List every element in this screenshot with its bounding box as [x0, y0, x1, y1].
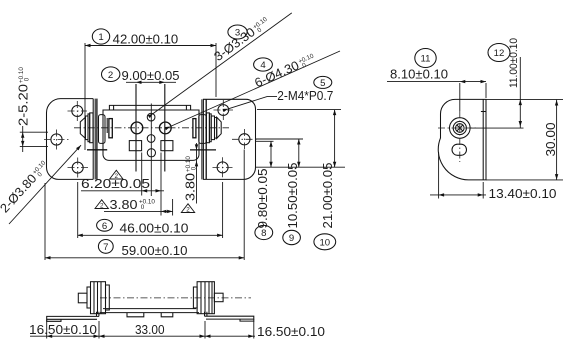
- body top flange: [109, 105, 190, 110]
- dim 3.80 arrows: [161, 210, 173, 213]
- body inner fold line left: [106, 118, 108, 133]
- center bar tab right: [161, 313, 173, 317]
- right bracket hole bottom: [217, 162, 228, 173]
- leader 3 text dia3.30: [212, 14, 273, 63]
- right spool pin stub: [214, 293, 223, 302]
- hinge axis centerline: [74, 127, 229, 129]
- dim 59.00 arrows: [45, 256, 244, 259]
- svg-text:12: 12: [494, 48, 505, 59]
- svg-text:6: 6: [102, 221, 107, 232]
- dim 46.00 line: [77, 182, 222, 238]
- body small hole bottom: [147, 149, 155, 157]
- dim 13.40 line and exts: [430, 152, 486, 199]
- dim 3.80 horizontal line: [104, 199, 173, 216]
- body center vertical line: [150, 104, 152, 197]
- dim 11.00 vline: [519, 57, 521, 128]
- dim 8.10 line and exts: [387, 82, 486, 111]
- balloon 2: [102, 67, 120, 82]
- balloon 9: [283, 230, 301, 244]
- dim 30.00 vline: [556, 100, 558, 180]
- bottom dim arrows: [47, 335, 254, 338]
- SIDE-VIEW: [387, 38, 563, 201]
- dim 10.50 arrows: [297, 139, 300, 167]
- dim 30.00 arrows: [555, 100, 558, 180]
- left wing foot: [47, 319, 61, 321]
- dim 9.80 arrows: [269, 141, 272, 167]
- dim 21.00 text vertical: [321, 163, 335, 229]
- left bend: [97, 312, 99, 317]
- right spool drum: [197, 282, 214, 314]
- right bracket hole bottom centerlines: [213, 157, 233, 177]
- triangle 2 before 3.80: [95, 200, 108, 209]
- side top edge ext: [486, 98, 563, 100]
- right bracket plate outline: [203, 99, 255, 179]
- svg-text:2: 2: [186, 207, 190, 214]
- left bracket plate right edge: [92, 99, 94, 180]
- body inner bar left: [109, 119, 112, 138]
- right wing plate: [205, 316, 254, 319]
- center bar top: [103, 308, 196, 310]
- leader 3.80 arrow: [76, 144, 82, 150]
- side view hole middle circle: [453, 121, 466, 134]
- dim 11.00 arrows: [519, 100, 522, 127]
- leader 4 arrow: [165, 125, 171, 130]
- MAIN-VIEW: [44, 99, 257, 196]
- dim 2-5.20 text vertical: [17, 67, 31, 126]
- dim 3.80 vertical arrows: [195, 144, 198, 166]
- triangle 2 below vertical 3.80: [181, 204, 194, 213]
- dim 9.00 arrows: [136, 81, 165, 84]
- dim 42.00 arrows: [85, 44, 216, 47]
- dim 3.80 vertical right line: [196, 143, 198, 204]
- body tab right: [161, 141, 173, 151]
- BOTTOM-VIEW: [29, 282, 325, 339]
- svg-text:9: 9: [289, 233, 294, 244]
- left bracket hole bottom centerlines: [68, 158, 89, 178]
- body knuckle roll right: [199, 115, 207, 144]
- svg-text:5: 5: [320, 78, 325, 89]
- central body outline: [103, 110, 199, 160]
- svg-text:9.80±0.05: 9.80±0.05: [256, 169, 270, 229]
- svg-text:2: 2: [100, 203, 104, 210]
- side view hole centerlines: [438, 111, 476, 162]
- side view screw recess: [456, 124, 465, 133]
- svg-text:3.80: 3.80: [110, 198, 138, 212]
- body big hole left: [131, 122, 143, 134]
- right bracket hole top M4: [218, 105, 229, 116]
- right spool washer 1: [193, 287, 197, 308]
- right bend: [205, 312, 207, 317]
- svg-text:3: 3: [235, 28, 240, 39]
- svg-text:59.00±0.10: 59.00±0.10: [122, 244, 188, 258]
- right bracket hole top centerlines: [214, 100, 234, 120]
- left spool pin stub: [78, 293, 87, 303]
- leader 3 arrow: [148, 112, 154, 118]
- svg-text:21.00±0.05: 21.00±0.05: [321, 163, 335, 229]
- pin washer left 3: [90, 113, 93, 143]
- pin washer right 3: [211, 116, 214, 140]
- svg-text:46.00±0.10: 46.00±0.10: [120, 221, 189, 235]
- left spool washer 2: [106, 285, 110, 310]
- dim 8.10 arrows: [460, 80, 486, 83]
- balloon 10: [314, 234, 336, 250]
- balloon 4: [254, 58, 273, 71]
- side view washer outer circle: [450, 118, 471, 139]
- svg-text:30.00: 30.00: [544, 123, 558, 157]
- pin washer left 2: [88, 114, 90, 142]
- svg-text:7: 7: [103, 242, 108, 253]
- balloon 5: [314, 76, 332, 88]
- right ext line mid-hole: [255, 138, 303, 140]
- leader 2-M4 line: [228, 97, 277, 109]
- left bracket leaf edge lines: [94, 99, 96, 180]
- leader 2-dia3.80 line: [9, 145, 81, 224]
- dim 46.00 arrows: [77, 234, 222, 237]
- dim 13.40 arrows: [439, 193, 484, 196]
- body ledge right: [190, 149, 216, 151]
- svg-text:8.10±0.10: 8.10±0.10: [390, 68, 448, 82]
- svg-text:0: 0: [23, 77, 30, 83]
- triangle 2 above 6.20: [110, 170, 123, 179]
- side view plate tick: [481, 111, 486, 113]
- left spool washer 1: [87, 287, 91, 308]
- right ext line short: [255, 140, 274, 142]
- balloon 1: [92, 29, 109, 44]
- body ledge left: [87, 149, 107, 151]
- svg-text:9.00±0.05: 9.00±0.05: [122, 69, 180, 83]
- pin washer right 4: [215, 118, 217, 139]
- body knuckle roll left: [99, 115, 106, 144]
- right wing foot: [240, 319, 254, 321]
- MAIN-DIMS: [0, 13, 345, 260]
- left bracket hole square 5.20: [51, 134, 62, 145]
- dim 9.80 vline: [270, 141, 272, 167]
- body big hole right: [159, 122, 171, 134]
- svg-text:1: 1: [98, 32, 103, 43]
- dim 59.00 line: [45, 150, 244, 261]
- dim 21.00 vline: [334, 110, 336, 168]
- leader 3-dia3.30 line: [153, 13, 292, 114]
- left bracket hole top centerlines: [68, 101, 88, 121]
- right ext line top: [257, 109, 341, 111]
- svg-text:13.40±0.10: 13.40±0.10: [489, 187, 557, 201]
- svg-text:2: 2: [115, 173, 119, 180]
- dim 30.00 text vertical: [544, 123, 558, 157]
- svg-text:0: 0: [139, 204, 145, 211]
- leader 6-dia4.30 line: [170, 51, 340, 127]
- right bracket hole mid square: [239, 134, 250, 145]
- svg-text:11: 11: [421, 54, 431, 65]
- svg-text:0: 0: [190, 166, 197, 172]
- svg-text:4: 4: [260, 60, 266, 71]
- svg-text:11.00±0.10: 11.00±0.10: [508, 38, 520, 88]
- bottom dim line: [30, 320, 255, 339]
- dim 10.50 vline: [298, 139, 300, 167]
- svg-text:2-5.20: 2-5.20: [17, 84, 31, 126]
- right bracket hole mid centerlines: [232, 129, 257, 149]
- balloon 7: [98, 240, 113, 254]
- center bar tab left: [127, 313, 144, 317]
- balloon 12: [488, 44, 510, 62]
- bottom view centerline: [100, 297, 251, 299]
- side view slot: [452, 144, 467, 155]
- svg-text:2: 2: [108, 70, 113, 81]
- pin head trapezoid left: [80, 117, 85, 138]
- dim 2-5.20 ext lines: [20, 126, 48, 152]
- svg-text:16.50±0.10: 16.50±0.10: [29, 323, 97, 337]
- dim 11.00 text vertical: [508, 38, 520, 88]
- left bracket hole top M4: [72, 106, 83, 117]
- svg-text:8: 8: [261, 228, 266, 239]
- right spool drum lines: [201, 282, 212, 314]
- right bracket leaf edge lines: [201, 99, 203, 179]
- left bracket plate outline: [47, 99, 94, 180]
- leader 5 arrow: [223, 107, 229, 112]
- dim 6.20 arrows: [142, 189, 161, 192]
- balloon 11: [415, 49, 436, 68]
- pin washer right 1: [206, 113, 209, 143]
- left wing plate: [47, 316, 99, 319]
- svg-text:33.00: 33.00: [135, 323, 165, 337]
- svg-text:10: 10: [319, 237, 330, 248]
- left spool drum: [91, 282, 106, 314]
- svg-text:2-M4*P0.7: 2-M4*P0.7: [277, 89, 333, 103]
- svg-text:42.00±0.10: 42.00±0.10: [113, 33, 179, 47]
- balloon 6: [97, 219, 113, 231]
- dim 42.00 line: [85, 43, 216, 150]
- balloon 3: [228, 25, 247, 39]
- dim 10.50 text vertical: [286, 163, 300, 229]
- pin washer left 1: [85, 116, 88, 140]
- leader 3.80 text diagonal: [0, 158, 52, 215]
- dim 3.80 vertical text: [184, 156, 198, 201]
- hole centerline right ext: [470, 127, 524, 129]
- dim 5.20 arrows: [21, 132, 24, 146]
- right ext line bottom-hole: [255, 166, 345, 168]
- dim 9.00 line: [126, 81, 176, 83]
- body tab left: [129, 141, 141, 151]
- center bar bottom: [100, 312, 199, 314]
- side view plate fold line: [482, 99, 484, 179]
- pin washer right 2: [209, 114, 211, 142]
- body small hole top: [147, 113, 155, 121]
- dim 6.20 line: [81, 153, 164, 216]
- body small hole middle: [147, 135, 155, 143]
- body inner bar right: [193, 119, 196, 138]
- side bottom edge ext: [486, 179, 563, 181]
- pin end trapezoid right: [217, 117, 222, 138]
- left bracket hole mid centerlines: [44, 130, 70, 150]
- dim 9.80 text vertical: [256, 169, 270, 229]
- svg-text:3.80: 3.80: [184, 173, 198, 201]
- left bracket hole bottom: [72, 162, 83, 173]
- svg-text:16.50±0.10: 16.50±0.10: [257, 325, 325, 339]
- dim 21.00 arrows: [333, 110, 336, 168]
- svg-text:10.50±0.05: 10.50±0.05: [286, 163, 300, 229]
- left spool drum lines: [94, 282, 101, 314]
- balloon 8: [255, 225, 273, 239]
- side view outline: [438, 99, 486, 179]
- leader 4 text dia4.30: [253, 51, 318, 90]
